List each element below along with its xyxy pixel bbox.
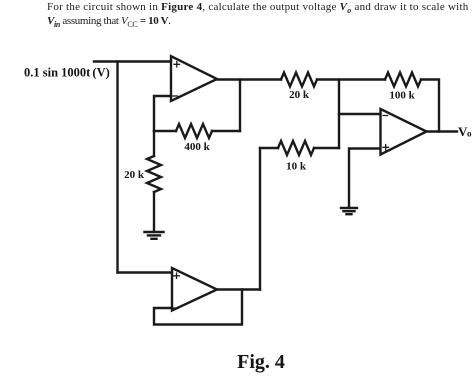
- resistor 20 k (top horizontal): [281, 73, 317, 87]
- wire U1 output: [217, 78, 281, 80]
- U2 minus mark: [383, 115, 388, 117]
- wire 10k right segment: [314, 147, 339, 149]
- wire U3 + input: [118, 271, 173, 273]
- node A vertical (junction 20k/100k/10k): [338, 80, 340, 149]
- op-amp pin polarity marks: [173, 62, 389, 309]
- resistor 10 k: [278, 141, 314, 155]
- svg-text:10 k: 10 k: [286, 161, 307, 173]
- U1 minus mark: [173, 95, 178, 97]
- svg-text:Fig. 4: Fig. 4: [237, 351, 285, 373]
- wire 20k to node A: [317, 78, 385, 80]
- wire 20k vertical to ground: [153, 192, 155, 231]
- wire 10k left segment: [260, 147, 278, 149]
- resistor 20 k (vertical): [147, 156, 161, 192]
- U3 minus mark: [174, 307, 178, 309]
- ground G1: [145, 231, 164, 233]
- resistor 400 k: [176, 124, 212, 138]
- op-amp U2: [381, 109, 427, 155]
- wire U1 feedback drop: [239, 80, 241, 132]
- ground G2: [341, 207, 357, 209]
- wire U3 feedback loop: [154, 290, 242, 325]
- svg-text:20 k: 20 k: [289, 89, 310, 101]
- op-amp U1: [171, 56, 217, 101]
- wire node to 20k vertical resistor: [153, 131, 155, 156]
- svg-text:0.1 sin 1000t (V): 0.1 sin 1000t (V): [24, 66, 110, 80]
- wire 400k right segment: [212, 130, 240, 132]
- wire U2 + input to ground: [349, 149, 380, 208]
- resistor 100 k: [385, 73, 421, 87]
- node Vin source wire: [94, 60, 171, 62]
- wire 400k left segment: [154, 130, 176, 132]
- U1 plus mark: [174, 62, 180, 68]
- wire U3 output: [217, 288, 260, 290]
- svg-text:20 k: 20 k: [124, 169, 145, 181]
- svg-text:100 k: 100 k: [389, 90, 415, 102]
- wire left vertical branch to bottom op-amp: [116, 62, 118, 273]
- U2 plus mark: [383, 145, 389, 151]
- op-amp U3: [172, 268, 217, 311]
- svg-text:o: o: [467, 129, 472, 139]
- svg-text:400 k: 400 k: [184, 141, 210, 153]
- U3 plus mark: [174, 273, 180, 279]
- wire 10k drop to U3 output: [259, 148, 261, 290]
- wire U2 output: [425, 130, 457, 132]
- wire 100k right to feedback drop: [421, 80, 439, 132]
- wire U1 inverting input: [154, 96, 171, 131]
- problem statement text: [47, 0, 474, 28]
- wire U2 inverting input: [339, 113, 380, 115]
